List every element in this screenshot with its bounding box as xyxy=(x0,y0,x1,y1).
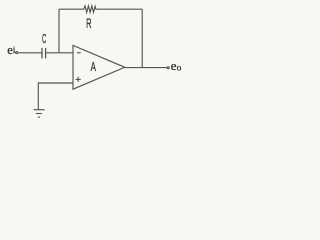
svg-text:A: A xyxy=(91,59,97,74)
svg-text:R: R xyxy=(86,16,92,31)
svg-text:o: o xyxy=(177,63,182,73)
svg-text:C: C xyxy=(42,31,46,46)
